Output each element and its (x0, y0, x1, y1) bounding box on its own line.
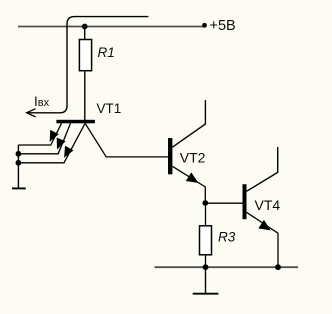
transistor VT2 base bar (168, 138, 172, 174)
ground (output side) (193, 293, 219, 295)
VT1 emitter 3 arrowhead (65, 147, 73, 157)
node: VT2 emitter / R3 junction (202, 200, 208, 206)
wire: +5V supply rail (18, 26, 203, 28)
wire: R3 top lead (205, 203, 207, 226)
arrowhead: input current (open) (27, 109, 36, 117)
transistor VT4 base bar (243, 184, 247, 219)
wire: ground stem (205, 267, 207, 294)
VT1 emitter 2 wire (18, 123, 70, 154)
transistor VT1 base bar (56, 120, 95, 124)
svg-text:+5В: +5В (210, 18, 236, 34)
VT2 emitter wire (172, 166, 205, 203)
node: +5V terminal dot (202, 23, 207, 28)
wire: R3 bottom lead (205, 255, 207, 267)
svg-text:R1: R1 (98, 45, 115, 60)
wire: R1 bottom lead to VT1 base (84, 71, 86, 120)
VT4 emitter arrowhead (259, 221, 270, 230)
svg-text:VT1: VT1 (97, 101, 122, 116)
VT1 emitter 1 arrowhead (50, 131, 58, 141)
wire: junction to VT4 base (205, 202, 242, 204)
wire: emitter bus down (17, 145, 19, 188)
VT4 collector wire (247, 147, 278, 191)
VT1 emitter 2 arrowhead (57, 138, 64, 148)
ground (input side) (12, 187, 26, 189)
wire: VT1 collector to VT2 base (85, 123, 168, 157)
svg-text:VT2: VT2 (180, 149, 206, 165)
svg-text:VT4: VT4 (255, 197, 281, 213)
svg-text:Iвх: Iвх (34, 94, 50, 109)
resistor R1 (79, 40, 91, 71)
wire: R1 top lead (84, 27, 86, 40)
VT2 emitter arrowhead (187, 173, 198, 182)
node: rail dot at VT4 emitter (275, 264, 281, 270)
resistor R3 (200, 226, 212, 255)
wire: input line (top run, curve, vertical, curve to arrow run) (27, 17, 148, 113)
node: emitter bus dot 2 (16, 160, 22, 166)
svg-text:R3: R3 (218, 230, 236, 245)
VT1 emitter 1 wire (18, 123, 61, 145)
VT2 collector wire (172, 100, 205, 147)
wire: bottom rail (155, 266, 299, 268)
node: emitter bus dot 1 (16, 151, 22, 157)
node: junction dot on +5V rail (82, 24, 88, 30)
node: rail dot at R3 / ground (203, 264, 209, 270)
VT4 emitter wire (247, 212, 279, 267)
VT1 emitter 3 wire (18, 123, 85, 163)
